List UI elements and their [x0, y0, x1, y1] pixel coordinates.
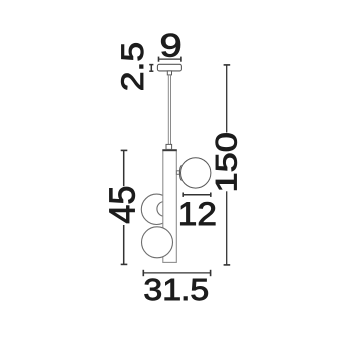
cable-to-tube connector	[166, 144, 172, 149]
dimension 31.5: left tick	[142, 270, 144, 276]
dimension 9: right tick	[180, 57, 182, 62]
svg-text:45: 45	[102, 186, 143, 224]
dimension 150: top tick	[224, 64, 231, 66]
dimension 12: right tick	[210, 193, 212, 197]
svg-text:31.5: 31.5	[143, 272, 209, 307]
svg-text:9: 9	[160, 28, 182, 64]
canopy connector	[167, 71, 171, 75]
dimension 150: lower segment	[226, 191, 228, 265]
dimension 12: line	[183, 194, 211, 196]
dimension 45: top tick	[121, 149, 128, 151]
dimension 31.5: right tick	[210, 270, 212, 276]
tube top cap	[162, 149, 176, 151]
dimension 45: lower segment	[123, 225, 125, 264]
dimension 150: bottom tick	[224, 264, 231, 266]
canopy (ceiling plate)	[157, 64, 181, 71]
neck of sphere S1 (right)	[176, 171, 179, 175]
dimension 31.5: line	[143, 272, 210, 274]
sphere S3 (bottom, in front of tube)	[142, 227, 173, 258]
tube (vertical cylinder body)	[163, 150, 177, 263]
dimension 9: left tick	[158, 57, 160, 62]
cable (right strand)	[170, 75, 172, 144]
svg-text:150: 150	[211, 132, 244, 192]
sphere S1 (right)	[181, 158, 211, 188]
dimension 12: left tick	[182, 193, 184, 197]
neck lens of sphere S1	[179, 165, 181, 180]
cable (left strand)	[167, 75, 169, 144]
dimension 2.5: bracket vertical	[150, 65, 152, 72]
dimension 9: line	[159, 58, 181, 60]
dimension 45: upper segment	[123, 150, 125, 186]
svg-text:12: 12	[178, 196, 217, 232]
dimension 150: upper segment	[226, 65, 228, 133]
sphere S2 (middle, behind tube)	[141, 194, 171, 224]
neck ring of sphere S2	[157, 202, 172, 217]
dimension 45: bottom tick	[121, 263, 128, 265]
dimension 2.5: bracket top tick	[149, 64, 153, 66]
svg-text:2.5: 2.5	[114, 42, 150, 91]
dimension 2.5: bracket bottom tick	[149, 70, 153, 72]
